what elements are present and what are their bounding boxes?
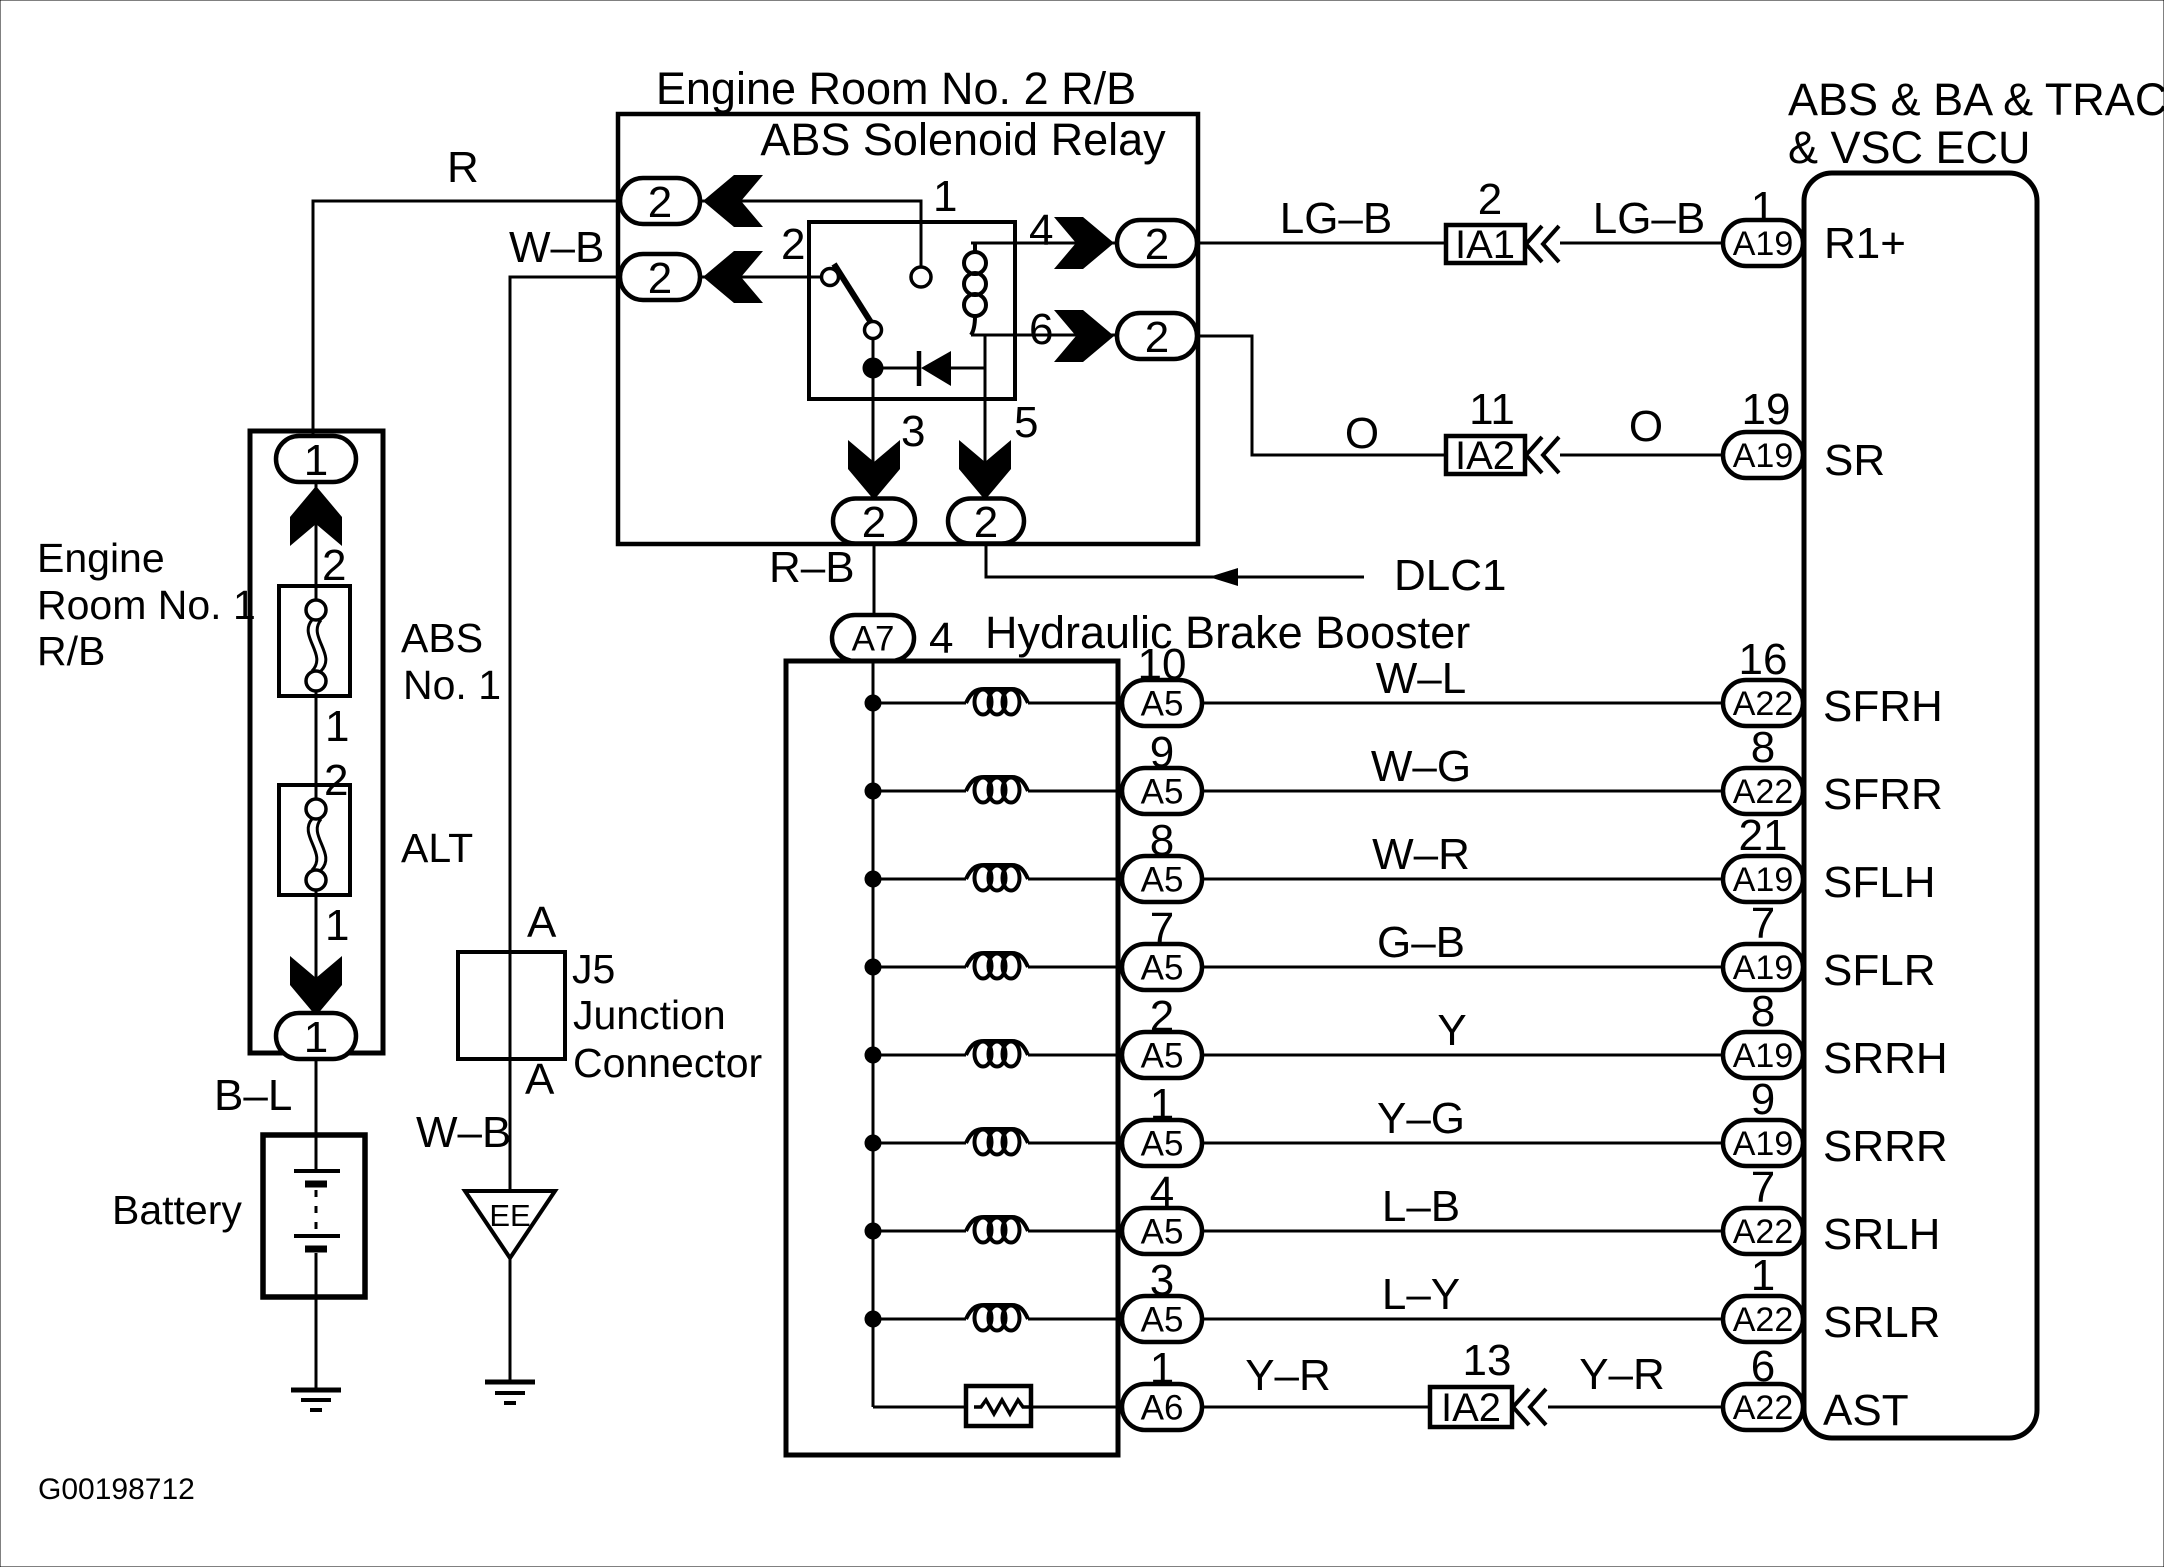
svg-text:W–L: W–L <box>1376 654 1466 703</box>
booster bus wire <box>872 661 875 1407</box>
svg-text:LG–B: LG–B <box>1280 194 1393 243</box>
svg-text:2: 2 <box>648 178 672 227</box>
svg-text:8: 8 <box>1751 987 1775 1036</box>
svg-text:A22: A22 <box>1733 1213 1794 1251</box>
svg-text:4: 4 <box>1029 206 1053 255</box>
svg-text:A5: A5 <box>1141 685 1184 724</box>
svg-text:A19: A19 <box>1733 225 1794 263</box>
svg-text:IA1: IA1 <box>1455 223 1515 267</box>
svg-text:A22: A22 <box>1733 773 1794 811</box>
junction dot row 7 <box>865 1223 881 1239</box>
wire W-B from relay to J5 <box>510 277 622 1193</box>
svg-text:A19: A19 <box>1733 1037 1794 1075</box>
svg-text:SRRH: SRRH <box>1823 1034 1948 1083</box>
wire relay pin4 <box>971 242 1118 245</box>
svg-text:13: 13 <box>1463 1336 1512 1385</box>
diode D1 wire to pin5 <box>951 367 985 370</box>
svg-text:8: 8 <box>1751 723 1775 772</box>
svg-text:A22: A22 <box>1733 1389 1794 1427</box>
svg-text:ABS & BA & TRAC: ABS & BA & TRAC <box>1788 74 2164 125</box>
svg-text:A5: A5 <box>1141 773 1184 812</box>
svg-text:Battery: Battery <box>112 1187 242 1233</box>
fuse ALT element <box>308 819 317 870</box>
solenoid coil row 6 (SRRR) <box>966 1129 1028 1143</box>
battery box <box>263 1135 365 1297</box>
connector IA2 box on SR row <box>1446 436 1525 474</box>
svg-text:2: 2 <box>781 220 805 269</box>
Hydraulic Brake Booster box <box>786 661 1118 1455</box>
wire resistor to A6 <box>1031 1406 1122 1409</box>
wire row 8 bus to coil <box>873 1318 966 1321</box>
svg-text:A5: A5 <box>1141 1037 1184 1076</box>
black left arrow relay pin1 <box>703 175 763 227</box>
connector IA1 box <box>1446 225 1525 263</box>
ground below EE <box>485 1380 535 1385</box>
fuse ABS No.1 element <box>308 620 317 671</box>
svg-text:A5: A5 <box>1141 1301 1184 1340</box>
svg-text:4: 4 <box>929 614 953 663</box>
connector oval A22 AST <box>1723 1384 1803 1430</box>
connector oval A5 row 4 <box>1122 944 1202 990</box>
junction dot relay common <box>863 358 883 378</box>
black left arrow relay pin2 <box>703 251 763 303</box>
connector oval A5 row 8 <box>1122 1296 1202 1342</box>
relay coil <box>973 243 977 253</box>
svg-text:2: 2 <box>1145 220 1169 269</box>
svg-text:A5: A5 <box>1141 949 1184 988</box>
svg-text:21: 21 <box>1739 811 1788 860</box>
connector oval A22 row 2 <box>1723 768 1803 814</box>
svg-text:2: 2 <box>1478 175 1502 224</box>
svg-text:Connector: Connector <box>573 1040 762 1086</box>
svg-text:R/B: R/B <box>37 628 105 674</box>
svg-text:SFLR: SFLR <box>1823 946 1935 995</box>
svg-text:A19: A19 <box>1733 437 1794 475</box>
connector oval A22 row 8 <box>1723 1296 1803 1342</box>
svg-text:1: 1 <box>325 702 349 751</box>
svg-text:Y–R: Y–R <box>1245 1351 1331 1400</box>
Engine Room No.1 R/B box <box>250 431 383 1053</box>
wire row 2 coil to A5 <box>1028 790 1122 793</box>
wire relay pin6 <box>971 334 1118 337</box>
junction dot row 8 <box>865 1311 881 1327</box>
ground triangle EE <box>465 1191 555 1258</box>
wire row 5 bus to coil <box>873 1054 966 1057</box>
junction dot row 6 <box>865 1135 881 1151</box>
wire row 7 bus to coil <box>873 1230 966 1233</box>
svg-text:Room No. 1: Room No. 1 <box>37 582 256 628</box>
svg-text:SR: SR <box>1824 436 1885 485</box>
wire relay pin2 <box>700 276 822 279</box>
wire battery to Engine Room No.1 <box>315 1058 318 1136</box>
solenoid coil row 7 (SRLH) <box>966 1217 1028 1231</box>
black down arrow in Engine Room No.1 <box>290 956 342 1016</box>
svg-text:2: 2 <box>1145 313 1169 362</box>
relay switch common contact <box>865 322 882 339</box>
black right arrow relay pin6 <box>1054 310 1114 362</box>
connector oval A19 SR <box>1723 432 1803 478</box>
black right arrow relay pin4 <box>1054 217 1114 269</box>
wire row 5 coil to A5 <box>1028 1054 1122 1057</box>
solenoid coil row 2 (SFRR) <box>966 777 1028 791</box>
wire battery to ground <box>315 1297 318 1390</box>
svg-text:A7: A7 <box>852 620 895 659</box>
svg-text:A5: A5 <box>1141 861 1184 900</box>
wire row 2 bus to coil <box>873 790 966 793</box>
wire relay pin3 <box>872 338 875 500</box>
svg-text:B–L: B–L <box>214 1071 292 1120</box>
wire row 6 coil to A5 <box>1028 1142 1122 1145</box>
diode D1 cathode bar <box>917 351 922 386</box>
svg-text:2: 2 <box>648 254 672 303</box>
wire row 6 bus to coil <box>873 1142 966 1145</box>
svg-text:2: 2 <box>862 498 886 547</box>
svg-text:Hydraulic Brake Booster: Hydraulic Brake Booster <box>985 607 1470 658</box>
wire row 1 coil to A5 <box>1028 702 1122 705</box>
svg-text:A: A <box>527 898 557 947</box>
svg-text:3: 3 <box>901 407 925 456</box>
wire Y row 5 <box>1202 1054 1723 1057</box>
svg-text:G–B: G–B <box>1377 918 1465 967</box>
junction dot row 1 <box>865 695 881 711</box>
connector oval A6 <box>1122 1384 1202 1430</box>
svg-text:AST: AST <box>1823 1386 1909 1435</box>
diode D1 anode wire <box>881 367 918 370</box>
svg-text:6: 6 <box>1029 305 1053 354</box>
connector oval A22 row 1 <box>1723 680 1803 726</box>
svg-text:EE: EE <box>489 1198 530 1233</box>
Engine Room No.2 R/B box <box>618 114 1198 544</box>
solenoid coil row 5 (SRRH) <box>966 1041 1028 1055</box>
connector oval 2 relay upper-left <box>620 178 700 224</box>
solenoid coil row 4 (SFLR) <box>966 953 1028 967</box>
svg-text:2: 2 <box>324 756 348 805</box>
connector oval A5 row 6 <box>1122 1120 1202 1166</box>
connector chevrons IA2 AST row <box>1513 1389 1529 1425</box>
svg-text:Engine Room No. 2 R/B: Engine Room No. 2 R/B <box>656 63 1136 114</box>
wire A6 to IA2 <box>1202 1406 1432 1409</box>
svg-text:SRLR: SRLR <box>1823 1298 1940 1347</box>
wire L–Y row 8 <box>1202 1318 1723 1321</box>
svg-text:ALT: ALT <box>401 825 473 871</box>
wire relay pin6 to IA2 <box>1197 336 1448 455</box>
svg-text:SRLH: SRLH <box>1823 1210 1940 1259</box>
connector oval 2 relay lower-left <box>620 254 700 300</box>
wire row 9 bus to resistor <box>873 1406 966 1409</box>
wire L–B row 7 <box>1202 1230 1723 1233</box>
connector oval 2 relay pin3 <box>833 499 915 544</box>
svg-text:A19: A19 <box>1733 861 1794 899</box>
svg-text:W–R: W–R <box>1372 830 1470 879</box>
wire IA1 to A19 R1+ <box>1560 242 1723 245</box>
svg-text:1: 1 <box>933 172 957 221</box>
svg-text:G00198712: G00198712 <box>38 1473 195 1506</box>
svg-text:L–Y: L–Y <box>1382 1270 1460 1319</box>
diode D1 triangle <box>921 351 951 386</box>
fuse ALT box <box>279 785 350 895</box>
svg-text:A22: A22 <box>1733 685 1794 723</box>
connector oval 2 relay pin5 <box>948 499 1024 544</box>
svg-text:1: 1 <box>325 901 349 950</box>
resistor in booster <box>966 1386 1031 1426</box>
black up arrow in Engine Room No.1 <box>290 486 342 546</box>
connector oval A7 <box>832 615 914 661</box>
J5 junction connector box <box>458 952 565 1059</box>
connector oval A22 row 7 <box>1723 1208 1803 1254</box>
wire W–L row 1 <box>1202 702 1723 705</box>
wire G–B row 4 <box>1202 966 1723 969</box>
wire row 4 coil to A5 <box>1028 966 1122 969</box>
svg-text:R–B: R–B <box>769 543 855 592</box>
svg-text:O: O <box>1629 402 1663 451</box>
wire EE to ground <box>509 1258 512 1382</box>
svg-text:1: 1 <box>304 436 328 485</box>
wire IA2 to A19 SR <box>1560 454 1723 457</box>
svg-text:SFRR: SFRR <box>1823 770 1943 819</box>
connector chevrons IA1 <box>1526 226 1542 262</box>
connector oval A19 row 6 <box>1723 1120 1803 1166</box>
connector oval A19 row 4 <box>1723 944 1803 990</box>
relay switch blade <box>834 264 872 324</box>
black down arrow relay pin3 <box>848 440 900 500</box>
ABS & BA & TRAC & VSC ECU box <box>1804 173 2037 1438</box>
svg-text:7: 7 <box>1751 899 1775 948</box>
wire W–G row 2 <box>1202 790 1723 793</box>
battery cells <box>315 1135 318 1171</box>
svg-text:SFRH: SFRH <box>1823 682 1943 731</box>
wire row 1 bus to coil <box>873 702 966 705</box>
svg-text:2: 2 <box>974 498 998 547</box>
svg-text:Y–G: Y–G <box>1377 1094 1465 1143</box>
wire row 3 bus to coil <box>873 878 966 881</box>
connector oval 1 top of Engine Room No.1 <box>276 436 356 482</box>
connector IA2 box on AST row <box>1430 1387 1512 1427</box>
fuse ALT terminals <box>306 799 326 819</box>
ground below battery <box>291 1388 341 1393</box>
wire Y–G row 6 <box>1202 1142 1723 1145</box>
svg-text:2: 2 <box>322 541 346 590</box>
wire row 7 coil to A5 <box>1028 1230 1122 1233</box>
solenoid coil row 8 (SRLR) <box>966 1305 1028 1319</box>
svg-text:16: 16 <box>1739 635 1788 684</box>
wire relay pin5 <box>984 335 987 500</box>
wire row 4 bus to coil <box>873 966 966 969</box>
solenoid coil row 3 (SFLH) <box>966 865 1028 879</box>
connector oval A19 row 3 <box>1723 856 1803 902</box>
svg-text:W–G: W–G <box>1371 742 1471 791</box>
svg-text:Y–R: Y–R <box>1579 1350 1665 1399</box>
solenoid coil row 1 (SFRH) <box>966 689 1028 703</box>
svg-text:A: A <box>525 1055 555 1104</box>
svg-text:A19: A19 <box>1733 949 1794 987</box>
svg-text:11: 11 <box>1469 385 1515 434</box>
svg-text:1: 1 <box>1751 1251 1775 1300</box>
svg-text:No. 1: No. 1 <box>403 662 501 708</box>
svg-text:ABS Solenoid Relay: ABS Solenoid Relay <box>760 114 1166 165</box>
connector oval A5 row 7 <box>1122 1208 1202 1254</box>
fuse ABS No.1 box <box>279 586 350 696</box>
svg-text:A19: A19 <box>1733 1125 1794 1163</box>
connector oval A5 row 5 <box>1122 1032 1202 1078</box>
svg-text:1: 1 <box>304 1013 328 1062</box>
connector oval 2 relay pin6 <box>1117 313 1197 359</box>
junction dot row 2 <box>865 783 881 799</box>
connector oval A5 row 3 <box>1122 856 1202 902</box>
svg-text:A22: A22 <box>1733 1301 1794 1339</box>
relay switch fixed contact <box>822 269 839 286</box>
svg-text:SFLH: SFLH <box>1823 858 1935 907</box>
connector oval 1 bottom of Engine Room No.1 <box>276 1013 356 1059</box>
svg-text:& VSC ECU: & VSC ECU <box>1788 122 2031 173</box>
svg-text:A5: A5 <box>1141 1125 1184 1164</box>
svg-text:19: 19 <box>1742 385 1791 434</box>
wire W–R row 3 <box>1202 878 1723 881</box>
svg-text:Engine: Engine <box>37 535 165 581</box>
svg-text:R1+: R1+ <box>1824 219 1906 268</box>
relay pin1 contact circle <box>911 267 931 287</box>
svg-text:L–B: L–B <box>1382 1182 1460 1231</box>
connector oval A5 row 2 <box>1122 768 1202 814</box>
junction dot row 4 <box>865 959 881 975</box>
wire relay pin1 <box>700 201 921 267</box>
svg-text:IA2: IA2 <box>1455 434 1515 478</box>
connector oval 2 relay pin4 <box>1117 220 1197 266</box>
relay inner box <box>809 222 1015 399</box>
wire relay pin3 to A7 <box>873 543 876 616</box>
junction dot row 3 <box>865 871 881 887</box>
svg-text:Y: Y <box>1437 1006 1466 1055</box>
wire R from relay to Engine Room No.1 R/B <box>313 201 622 437</box>
svg-text:J5: J5 <box>572 946 615 992</box>
fuse ABS No.1 terminals <box>306 600 326 620</box>
svg-text:W–B: W–B <box>509 223 604 272</box>
svg-text:IA2: IA2 <box>1441 1386 1501 1430</box>
svg-text:9: 9 <box>1751 1075 1775 1124</box>
connector oval A19 R1+ <box>1723 220 1803 266</box>
svg-text:A6: A6 <box>1141 1389 1184 1428</box>
connector oval A19 row 5 <box>1723 1032 1803 1078</box>
black down arrow relay pin5 <box>959 440 1011 500</box>
wire through Engine Room No.1 fuses <box>315 481 318 612</box>
svg-text:DLC1: DLC1 <box>1394 551 1507 600</box>
svg-text:A5: A5 <box>1141 1213 1184 1252</box>
wire row 3 coil to A5 <box>1028 878 1122 881</box>
svg-text:LG–B: LG–B <box>1593 194 1706 243</box>
wire relay pin4 to IA1 <box>1197 242 1448 245</box>
connector oval A5 row 1 <box>1122 680 1202 726</box>
wire relay pin5 to DLC1 <box>986 543 1364 577</box>
svg-text:7: 7 <box>1751 1163 1775 1212</box>
svg-text:Junction: Junction <box>573 992 726 1038</box>
connector chevrons IA2 SR row <box>1526 437 1542 473</box>
svg-text:R: R <box>447 143 479 192</box>
svg-text:SRRR: SRRR <box>1823 1122 1948 1171</box>
svg-text:5: 5 <box>1014 398 1038 447</box>
wire row 8 coil to A5 <box>1028 1318 1122 1321</box>
svg-text:O: O <box>1345 409 1379 458</box>
svg-text:W–B: W–B <box>416 1108 511 1157</box>
arrow from DLC1 <box>1209 568 1238 586</box>
svg-text:ABS: ABS <box>401 615 483 661</box>
junction dot row 5 <box>865 1047 881 1063</box>
wire IA2 to A22 AST <box>1548 1406 1723 1409</box>
